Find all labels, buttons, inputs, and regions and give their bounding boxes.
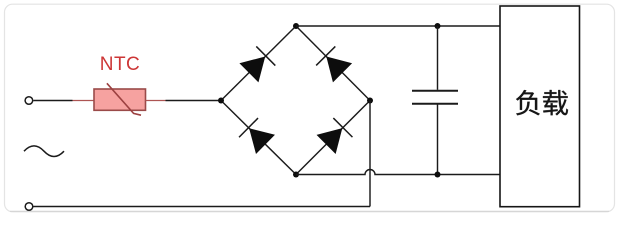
wire from top terminal to NTC left lead [33, 100, 72, 102]
node capacitor top junction [435, 23, 441, 29]
NTC left lead (red) [73, 100, 95, 102]
thermistor NTC body [94, 89, 146, 110]
AC terminal bottom [25, 203, 33, 211]
label 负载 (load) [516, 90, 568, 115]
load box [500, 6, 580, 207]
thermistor diagonal stroke [107, 83, 141, 115]
svg-text:NTC: NTC [100, 54, 141, 75]
wire capacitor upper stem [437, 26, 439, 90]
capacitor C1 plates [412, 91, 458, 104]
bridge arm top-right [296, 26, 370, 101]
node bottom (bridge - output) [293, 172, 299, 178]
wire bottom rail with hop over AC return [296, 170, 500, 175]
node top (bridge + output) [293, 23, 299, 29]
node left (bridge AC input) [218, 98, 224, 104]
diode D3 lower-left [239, 118, 275, 154]
NTC right lead (red) [146, 100, 166, 102]
diode D4 lower-right [317, 118, 353, 154]
bridge arm left-bottom [221, 101, 296, 175]
node right (bridge AC input) [367, 98, 373, 104]
AC terminal top [25, 97, 33, 105]
wire top rail to load [296, 25, 500, 27]
card bottom edge accent [10, 210, 609, 212]
wire AC bottom horizontal [34, 206, 371, 208]
node capacitor bottom junction [435, 172, 441, 178]
diode D1 upper-left [239, 46, 275, 82]
bridge arm bottom-right [296, 101, 370, 175]
diode D2 upper-right [316, 46, 352, 82]
wire AC return vertical [369, 101, 371, 207]
bridge arm left-top [221, 26, 296, 101]
AC source tilde symbol [24, 146, 64, 157]
wire from NTC to bridge left node [166, 100, 222, 102]
wire capacitor lower stem [437, 105, 439, 175]
